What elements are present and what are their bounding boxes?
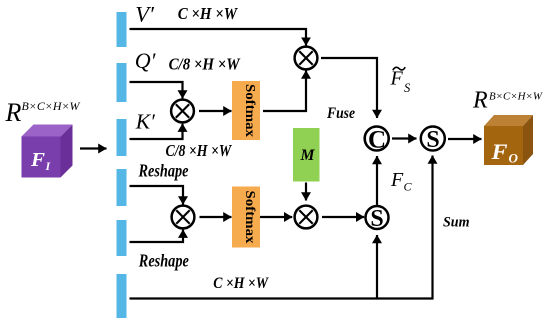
wire C to sum node S1 xyxy=(392,137,417,139)
svg-text:B×C×H×W: B×C×H×W xyxy=(489,91,543,103)
sum node S1 xyxy=(421,127,445,154)
svg-text:C/8 ×H ×W: C/8 ×H ×W xyxy=(169,54,241,73)
bottom wire CxHxW to S1 (Sum path) xyxy=(130,156,433,299)
M box xyxy=(293,128,320,182)
wire X2 to softmax2 xyxy=(200,216,232,218)
svg-text:C: C xyxy=(404,180,413,194)
label F_O xyxy=(490,139,518,166)
label R^BxCxHxW (right) xyxy=(472,88,543,114)
label R^BxCxHxW (left) xyxy=(5,98,81,127)
bar reshape-1 xyxy=(117,169,127,206)
wire X4 to sum node S2 xyxy=(322,216,364,218)
wire X1 to softmax1 xyxy=(199,110,232,112)
wire M to multiply node 4 xyxy=(305,183,307,201)
sum node S2 xyxy=(366,206,389,232)
wire softmax2 to multiply node 4 xyxy=(260,216,292,218)
svg-text:Fuse: Fuse xyxy=(326,105,355,122)
wire reshape bar 1 to multiply node 2 xyxy=(130,186,184,205)
svg-text:O: O xyxy=(509,151,519,166)
wire K' to multiply node 1 xyxy=(130,124,183,139)
svg-text:K′: K′ xyxy=(135,110,155,134)
multiply node X2 xyxy=(172,206,195,229)
multiply node X1 xyxy=(171,100,194,123)
multiply node X3 (top) xyxy=(295,47,318,70)
wire S1 to output cube xyxy=(448,138,482,140)
wire: input arrow cube to bars xyxy=(80,147,107,149)
svg-text:Reshape: Reshape xyxy=(138,250,189,270)
label F~_S xyxy=(390,67,412,95)
svg-text:V′: V′ xyxy=(135,2,155,27)
svg-text:Q′: Q′ xyxy=(135,48,157,73)
multiply node X4 xyxy=(295,206,318,229)
svg-text:S: S xyxy=(426,127,439,153)
svg-text:F: F xyxy=(390,68,404,90)
wire X3 to concat C xyxy=(321,58,377,118)
svg-text:C/8 ×H ×W: C/8 ×H ×W xyxy=(166,141,233,160)
svg-text:C ×H ×W: C ×H ×W xyxy=(213,275,269,292)
svg-text:S: S xyxy=(404,81,411,95)
svg-text:Softmax: Softmax xyxy=(243,84,258,137)
svg-text:S: S xyxy=(370,206,383,232)
wire reshape bar 2 to multiply node 2 xyxy=(130,230,184,242)
wire V' to multiply node (top) xyxy=(130,29,307,46)
svg-text:Sum: Sum xyxy=(443,215,470,231)
softmax box 1 xyxy=(232,81,260,140)
svg-text:R: R xyxy=(472,88,488,114)
svg-text:R: R xyxy=(5,98,22,127)
svg-text:F: F xyxy=(390,169,404,191)
label F_I xyxy=(30,149,52,173)
bottom branch wire up to S2 xyxy=(376,235,378,299)
bar Q' xyxy=(117,63,127,102)
svg-text:C: C xyxy=(368,127,386,154)
bar bottom xyxy=(117,274,127,318)
svg-text:B×C×H×W: B×C×H×W xyxy=(22,101,81,113)
bar K' xyxy=(117,119,127,156)
svg-text:F: F xyxy=(490,139,507,164)
svg-text:Reshape: Reshape xyxy=(138,161,189,181)
softmax box 2 xyxy=(232,187,260,248)
svg-text:C ×H ×W: C ×H ×W xyxy=(178,4,238,23)
wire softmax1 to multiply node top (Fuse path) xyxy=(263,71,306,112)
wire S2 up to concat C (F_C path) xyxy=(376,156,378,205)
input cube F_I xyxy=(22,125,73,178)
svg-text:M: M xyxy=(300,147,316,164)
output cube F_O xyxy=(484,115,533,165)
svg-text:Softmax: Softmax xyxy=(243,191,258,244)
concat node C xyxy=(365,127,389,154)
wire Q' to multiply node 1 xyxy=(130,82,183,99)
svg-text:F: F xyxy=(30,149,46,171)
bar V' xyxy=(117,12,127,47)
label F_C xyxy=(390,169,413,194)
bar reshape-2 xyxy=(117,220,127,256)
